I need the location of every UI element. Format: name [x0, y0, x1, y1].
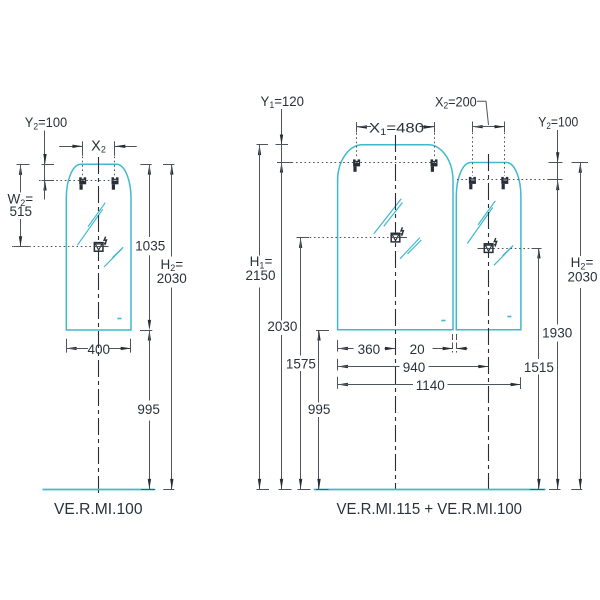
left mirror centerline	[98, 157, 100, 497]
svg-text:515: 515	[10, 204, 33, 219]
left mirror bracket hook right	[112, 177, 119, 189]
dim Y2r line	[549, 130, 563, 190]
dim Y2 ticks	[42, 165, 55, 181]
dim 995r line	[316, 330, 329, 489]
dim H1 line	[257, 145, 270, 490]
dim 1515 label	[524, 360, 554, 375]
right diagram label	[337, 501, 523, 518]
dim 1140 label	[416, 378, 445, 393]
svg-text:Y2=100: Y2=100	[538, 115, 578, 131]
dim Y2 line+arrows	[43, 131, 46, 200]
dim H2r line	[571, 163, 588, 490]
big mirror VE.R.MI.115 outline	[338, 145, 453, 330]
dim 2030 left label	[267, 319, 297, 334]
dim X2 ticks	[83, 141, 115, 156]
dim X2 left tail+arrow	[59, 145, 82, 148]
dim Y2r label	[538, 115, 578, 131]
svg-text:20: 20	[410, 342, 425, 357]
big junction box	[391, 233, 400, 242]
small mirror VE.R.MI.100 outline	[456, 163, 521, 330]
left bracket dotted line	[39, 180, 117, 182]
dim 940 line	[338, 365, 489, 368]
right floor line	[314, 489, 546, 491]
dim W2 tick top	[17, 164, 30, 166]
big mirror bracket hook right	[431, 159, 438, 171]
svg-text:2030: 2030	[157, 271, 187, 286]
dim 20 line	[433, 347, 468, 350]
dim H2 left line	[163, 164, 174, 489]
dim 20 gap extensions	[453, 334, 457, 353]
dim 1930 line	[549, 180, 561, 490]
dim H2 left label	[157, 257, 187, 286]
svg-text:2030: 2030	[267, 319, 297, 334]
svg-text:X2=200: X2=200	[435, 94, 477, 110]
small junction box	[484, 244, 493, 253]
svg-text:1930: 1930	[542, 326, 572, 341]
dim W2 label	[8, 192, 34, 219]
dim 400 extensions	[67, 339, 131, 353]
dim W2 line+arrows	[14, 165, 29, 247]
dim 400 line	[66, 347, 131, 350]
svg-text:VE.R.MI.115 + VE.R.MI.100: VE.R.MI.115 + VE.R.MI.100	[337, 501, 523, 518]
left junction dotted line	[12, 246, 109, 248]
dim 400 label	[88, 342, 111, 357]
svg-text:VE.R.MI.100: VE.R.MI.100	[54, 501, 143, 518]
dim X1 extension dotted	[357, 133, 435, 157]
dim 1035-995 line	[140, 164, 155, 489]
svg-text:940: 940	[403, 360, 426, 375]
svg-text:X1=480: X1=480	[369, 121, 424, 137]
dim X2r ticks	[473, 122, 505, 133]
dim 2030 left line	[279, 162, 292, 489]
dim H2r label	[567, 255, 597, 284]
dim X2r leader	[477, 101, 489, 125]
dim 1140 right extension	[520, 377, 522, 389]
dim X2 extension dotted	[83, 157, 115, 177]
small junction lightning bolt	[494, 238, 497, 247]
svg-text:1035: 1035	[135, 239, 165, 254]
dim X2r line	[472, 125, 504, 128]
dim 360 label	[358, 342, 381, 357]
dim 1575 line	[297, 238, 311, 490]
svg-text:1140: 1140	[416, 378, 445, 393]
big bracket dotted line	[283, 162, 436, 164]
dim 360 line	[338, 347, 396, 350]
small mirror bracket hook right	[501, 177, 508, 189]
dim 940 extension	[337, 359, 339, 371]
left mirror glass shine lines	[77, 203, 123, 319]
dim Y1 label	[261, 94, 305, 110]
dim H1 tick top	[257, 144, 289, 146]
dim 940 label	[403, 360, 426, 375]
dim H1 label	[245, 254, 275, 283]
small junction dotted line	[478, 248, 542, 250]
dim 1515 line	[530, 248, 545, 489]
dim 1930 label	[542, 326, 572, 341]
svg-text:1515: 1515	[524, 360, 554, 375]
dim X2r extension dotted	[473, 133, 505, 177]
dim 1035 label	[135, 239, 165, 254]
small mirror shine lines	[467, 201, 513, 317]
dim 995r label	[308, 402, 331, 417]
left junction lightning bolt	[104, 237, 107, 246]
big junction dotted line	[301, 237, 407, 239]
dim X2 label	[91, 138, 106, 154]
dim Y1 line	[277, 109, 292, 173]
dim X2 right tail+arrow	[115, 145, 137, 148]
svg-text:Y1=120: Y1=120	[261, 94, 305, 110]
dim X1 label	[369, 121, 424, 137]
svg-text:400: 400	[88, 342, 111, 357]
left diagram label	[54, 501, 143, 518]
svg-text:Y2=100: Y2=100	[25, 115, 67, 131]
big mirror centerline	[395, 135, 397, 490]
big junction lightning bolt	[401, 227, 404, 236]
left mirror VE.R.MI.100 outline	[66, 164, 131, 330]
svg-text:360: 360	[358, 342, 381, 357]
small bracket dotted line	[457, 179, 558, 181]
dim 1140 left extension	[337, 377, 339, 389]
svg-text:995: 995	[137, 402, 160, 417]
svg-text:2030: 2030	[567, 269, 597, 284]
dim X1 ticks	[357, 122, 435, 133]
dim 995 left label	[137, 402, 160, 417]
svg-text:2150: 2150	[245, 268, 275, 283]
dim 1575 label	[286, 356, 316, 371]
left mirror bracket hook left	[79, 177, 86, 189]
small mirror centerline	[488, 154, 490, 490]
dim X2r label	[435, 94, 477, 110]
dim 360 extension	[337, 340, 339, 352]
svg-text:995: 995	[308, 402, 331, 417]
dim Y2 label	[25, 115, 67, 131]
big mirror shine lines	[374, 199, 446, 321]
dim X1 line	[357, 125, 434, 128]
dim 20 label	[410, 342, 425, 357]
small mirror bracket hook left	[469, 177, 476, 189]
svg-text:1575: 1575	[286, 356, 316, 371]
dim 1140 line	[338, 383, 521, 386]
left floor line	[43, 489, 155, 491]
left junction box	[94, 243, 103, 252]
big mirror bracket hook left	[353, 159, 360, 171]
